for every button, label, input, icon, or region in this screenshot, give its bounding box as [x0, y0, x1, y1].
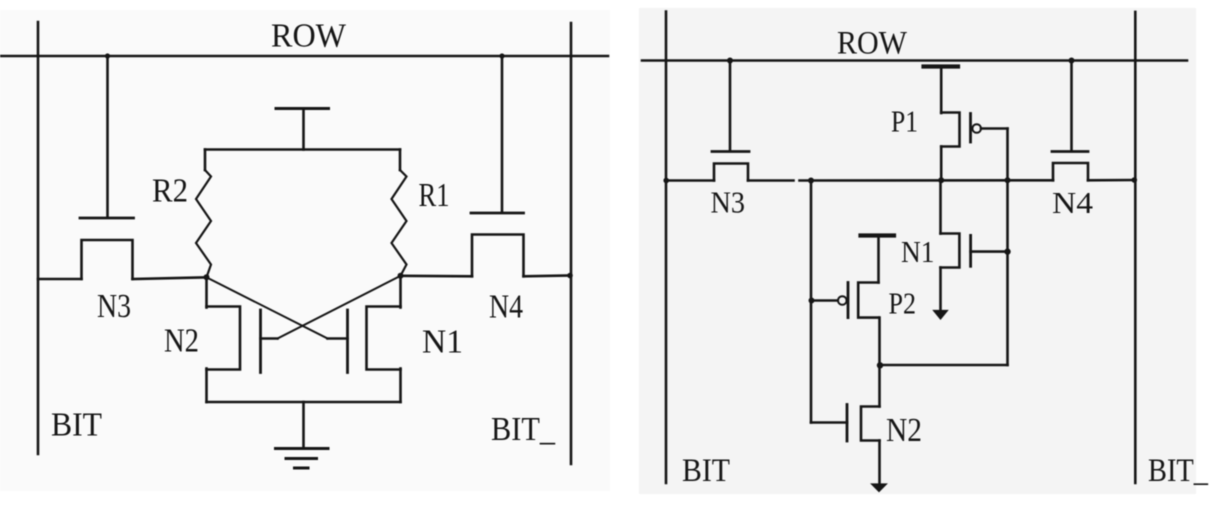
node N1 gate junction — [1004, 248, 1010, 254]
transistor N3 gate lead (right) — [729, 61, 732, 151]
wire source rail to ground — [207, 401, 401, 404]
wire gate column vertical — [1006, 129, 1009, 366]
transistor N4 gate lead — [501, 56, 504, 212]
transistor P2 source lead — [877, 237, 880, 283]
wire cross-couple N1 gate to node A — [207, 277, 328, 338]
transistor N2 channel — [207, 307, 241, 370]
svg-text:ROW: ROW — [837, 26, 908, 62]
wire N4 drain to BIT_ — [524, 274, 572, 277]
transistor P1 channel — [941, 113, 959, 147]
svg-text:BIT_: BIT_ — [1148, 453, 1208, 489]
svg-text:ROW: ROW — [271, 18, 347, 55]
transistor N2 source lead (right) — [878, 441, 881, 483]
wire BIT line (right cell) — [665, 12, 668, 483]
transistor N1 drain lead — [399, 276, 402, 308]
wire left branch vertical — [810, 181, 813, 423]
svg-text:P1: P1 — [891, 104, 918, 139]
resistor R2 — [204, 150, 207, 171]
resistor R1 — [399, 150, 402, 171]
svg-text:BIT: BIT — [51, 407, 102, 444]
svg-text:N3: N3 — [711, 185, 746, 220]
transistor N2 gate stub — [261, 337, 278, 340]
scan background right panel — [639, 8, 1196, 494]
wire BIT to N3 source — [38, 278, 82, 281]
node N3 gate to ROW junction — [105, 53, 110, 58]
transistor N1 channel (right) — [941, 234, 960, 268]
wire storage node link horizontal — [880, 364, 1008, 367]
power VDD bar P2 — [861, 233, 895, 237]
transistor P2 gate lead — [811, 299, 838, 302]
transistor P1 gate bar — [969, 114, 972, 143]
transistor N3 channel — [82, 240, 133, 279]
svg-text:P2: P2 — [889, 286, 917, 321]
svg-text:BIT_: BIT_ — [491, 411, 556, 448]
transistor N2 gate bar (right) — [846, 405, 849, 442]
node wire junction gate column — [1005, 177, 1011, 183]
svg-text:N1: N1 — [422, 324, 463, 361]
transistor N2 gate lead (right) — [811, 421, 847, 424]
node wire junction left branch — [808, 178, 814, 184]
transistor P1 gate lead — [981, 127, 1008, 130]
ground arrow N1 — [934, 311, 948, 320]
ground arrow N2 — [872, 484, 887, 492]
node BIT to N3 junction — [663, 178, 669, 184]
svg-text:N4: N4 — [489, 289, 523, 326]
transistor N1 source lead (right) — [939, 268, 942, 311]
transistor N2 source lead — [205, 369, 208, 403]
transistor N1 gate bar — [346, 310, 349, 373]
transistor N3 channel (right) — [714, 164, 748, 181]
node N4 to BIT_ junction — [567, 273, 573, 279]
transistor N1 drain lead (right) — [939, 180, 942, 233]
wire BIT_ line (left cell) — [570, 23, 573, 464]
svg-text:N1: N1 — [901, 234, 935, 269]
transistor N4 channel — [472, 235, 524, 277]
node wire to BIT_ junction — [1132, 177, 1138, 183]
svg-text:R2: R2 — [152, 173, 188, 210]
scan background left panel — [0, 10, 610, 491]
svg-text:N2: N2 — [886, 412, 922, 449]
transistor N3 gate bar (right) — [712, 150, 749, 153]
wire ROW (left cell) — [0, 55, 608, 58]
transistor N3 gate bar — [80, 217, 134, 220]
node wire junction P1 drain — [938, 177, 944, 183]
transistor N1 gate lead (right) — [971, 250, 1008, 253]
wire VCC rail — [205, 148, 400, 151]
transistor N4 gate bar (right) — [1052, 150, 1088, 153]
transistor N4 gate bar — [471, 212, 524, 215]
transistor N1 source lead — [399, 369, 402, 403]
transistor P1 gate bubble — [972, 124, 981, 133]
node P2 gate junction — [809, 298, 815, 304]
transistor N3 gate lead — [106, 56, 109, 217]
power VDD bar P1 — [924, 64, 959, 68]
wire N4 drain to BIT_ (right) — [1088, 179, 1135, 182]
transistor P1 drain lead — [940, 147, 943, 181]
transistor P2 gate bubble — [838, 296, 847, 305]
wire cross-couple N2 gate to node B — [278, 276, 401, 339]
wire node B to N4 source — [401, 274, 473, 277]
ground symbol (left cell) — [276, 447, 329, 450]
svg-text:R1: R1 — [419, 177, 450, 214]
transistor P2 gate bar — [847, 283, 850, 318]
node A (left storage node) — [204, 274, 210, 280]
node P2 drain / N2 drain junction — [877, 362, 883, 368]
node B (right storage node) — [398, 273, 404, 279]
wire BIT_ line (right cell) — [1134, 12, 1137, 483]
svg-text:N2: N2 — [164, 323, 199, 360]
transistor P1 source lead — [940, 68, 943, 113]
wire BIT line (left cell) — [37, 22, 40, 454]
node N4 gate to ROW junction — [499, 53, 504, 58]
node N3 gate to ROW junction — [727, 58, 733, 64]
transistor N2 gate bar — [259, 310, 262, 373]
wire N3 drain to node A — [133, 277, 207, 279]
transistor N1 gate stub — [328, 337, 348, 340]
svg-text:N3: N3 — [97, 288, 131, 325]
wire BIT to N3 source (right) — [666, 179, 714, 182]
svg-text:BIT: BIT — [682, 453, 730, 489]
transistor N2 channel (right) — [861, 407, 880, 441]
transistor P2 drain lead — [878, 318, 881, 407]
transistor N1 gate bar (right) — [969, 235, 972, 266]
node N4 gate to ROW junction — [1069, 58, 1075, 64]
transistor N1 channel — [367, 307, 401, 370]
transistor N4 gate lead (right) — [1070, 61, 1073, 151]
transistor P2 channel — [858, 283, 878, 318]
wire N3 drain toward node (with scan break) — [748, 179, 794, 182]
transistor N4 channel (right) — [1053, 163, 1088, 180]
transistor N2 drain lead — [205, 277, 208, 307]
power VCC symbol (left cell) — [276, 107, 329, 110]
svg-text:N4: N4 — [1052, 185, 1094, 220]
wire ROW (right cell) — [642, 59, 1187, 62]
